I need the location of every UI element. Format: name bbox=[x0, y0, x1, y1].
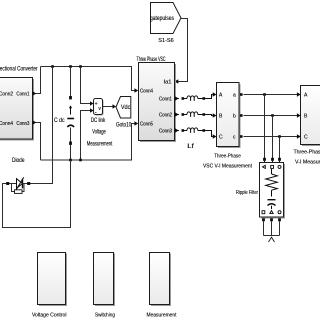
node J1 bbox=[51, 65, 54, 68]
neutral chevron bbox=[269, 237, 275, 242]
svg-text:Conn3: Conn3 bbox=[159, 128, 172, 134]
svg-text:Conn4: Conn4 bbox=[140, 88, 153, 94]
port label Conn4 bbox=[0, 121, 13, 127]
arrow into Vdc goto bbox=[113, 104, 117, 108]
inductor row C bbox=[175, 128, 217, 139]
svg-text:Conn2: Conn2 bbox=[0, 92, 13, 98]
label Three-Phase bbox=[214, 154, 241, 160]
svg-text:+: + bbox=[95, 102, 98, 108]
svg-text:a: a bbox=[233, 92, 236, 98]
svg-text:Conn1: Conn1 bbox=[159, 96, 172, 102]
capacitor C dc bbox=[67, 67, 74, 161]
svg-text:Voltage: Voltage bbox=[92, 130, 106, 136]
svg-text:Three-Phase: Three-Phase bbox=[294, 150, 320, 156]
port label Conn5 vsc bbox=[140, 122, 153, 128]
svg-text:gatepulses: gatepulses bbox=[150, 16, 174, 22]
svg-text:b: b bbox=[233, 114, 236, 120]
node J4 bbox=[69, 159, 72, 162]
subsystem Switching bbox=[94, 253, 116, 307]
wire phase b bbox=[244, 115, 298, 117]
wire Conn3 to bottom rail bbox=[36, 123, 41, 161]
node Jb bbox=[271, 114, 274, 117]
label VSC V-I Measurement bbox=[203, 164, 252, 170]
resistor R ripple bbox=[266, 169, 278, 197]
port Conn4 arrow (VSC input) bbox=[134, 88, 138, 92]
svg-text:Goto10: Goto10 bbox=[116, 122, 132, 128]
svg-text:C: C bbox=[304, 135, 308, 141]
arrow minus input bbox=[90, 108, 94, 112]
label DC link Voltage Measurement bbox=[87, 118, 113, 147]
wire drop a bbox=[264, 95, 266, 159]
measurement block U6 (Three-Phase V-I Measurement) bbox=[301, 86, 320, 147]
label C dc bbox=[54, 118, 65, 124]
wire plus input to voltage measurement bbox=[81, 67, 91, 104]
VSC block U3 bbox=[139, 63, 177, 143]
svg-text:Lf: Lf bbox=[187, 144, 194, 150]
wire Conn1 to top rail bbox=[36, 67, 41, 94]
wire top rail bbox=[41, 67, 136, 91]
arrow into B2 bbox=[297, 113, 301, 117]
node J5 bbox=[79, 159, 82, 162]
label Voltage Control bbox=[32, 313, 67, 319]
converter block U1 (Bidirectional Converter) bbox=[0, 78, 34, 141]
stub squares ripple filter top bbox=[263, 158, 281, 163]
arrow into C2 bbox=[297, 134, 301, 138]
label Lf bbox=[187, 144, 194, 150]
inductor row B bbox=[175, 112, 217, 118]
svg-text:Conn1: Conn1 bbox=[16, 92, 29, 98]
label Goto10 bbox=[116, 122, 132, 128]
ripple filter top glyphs bbox=[263, 165, 282, 168]
svg-text:Conn4: Conn4 bbox=[0, 121, 13, 127]
wire gatepulses to Ia1 bbox=[178, 19, 188, 82]
goto tag Vdc bbox=[116, 97, 131, 119]
arrow into A2 bbox=[297, 92, 301, 96]
port label Conn3 vsc bbox=[159, 128, 172, 134]
svg-text:S1-S6: S1-S6 bbox=[158, 38, 174, 44]
label Three-Phase right bbox=[294, 150, 320, 156]
port c stub bbox=[240, 135, 243, 138]
port Conn5 arrow (VSC input) bbox=[134, 121, 138, 125]
node Ja bbox=[263, 93, 266, 96]
svg-text:Measurement: Measurement bbox=[147, 313, 177, 319]
label S1-S6 bbox=[158, 38, 174, 44]
ripple filter bottom glyphs bbox=[262, 211, 281, 214]
svg-text:Voltage Control: Voltage Control bbox=[32, 313, 67, 319]
svg-text:Three-Phase: Three-Phase bbox=[214, 154, 241, 160]
wire diode branch vertical bbox=[29, 67, 53, 184]
label Ripple Filter bbox=[236, 190, 258, 196]
port label Conn2 vsc bbox=[159, 112, 172, 118]
wire bottom rail bbox=[41, 124, 136, 161]
subsystem Measurement bbox=[150, 253, 172, 307]
from tag gatepulses bbox=[150, 3, 181, 34]
port label Conn1 bbox=[16, 92, 29, 98]
svg-text:V-I Measurement: V-I Measurement bbox=[295, 160, 320, 166]
label Measurement bbox=[147, 313, 177, 319]
wire drop c bbox=[279, 137, 281, 159]
voltage measurement block U2 bbox=[94, 99, 104, 116]
label Diode bbox=[12, 158, 25, 164]
wire vm output bbox=[103, 106, 114, 108]
svg-text:Conn2: Conn2 bbox=[159, 112, 172, 118]
ripple filter block U5 bbox=[260, 163, 286, 219]
wire drop b bbox=[272, 116, 274, 159]
label Switching bbox=[95, 313, 115, 319]
svg-text:Conn3: Conn3 bbox=[16, 121, 29, 127]
svg-text:VSC V-I Measurement: VSC V-I Measurement bbox=[203, 164, 252, 170]
label Bidirectional Converter bbox=[0, 67, 38, 73]
port Conn1 arrow bbox=[33, 91, 37, 95]
svg-text:Three Phase VSC: Three Phase VSC bbox=[137, 57, 166, 63]
port Conn3 arrow bbox=[33, 120, 37, 124]
node J2 bbox=[69, 65, 72, 68]
svg-text:Ia1: Ia1 bbox=[164, 79, 172, 85]
svg-text:Conn5: Conn5 bbox=[140, 122, 153, 128]
diode D1 bbox=[3, 177, 31, 193]
port label Conn2 bbox=[0, 92, 13, 98]
inductor row A bbox=[175, 92, 217, 101]
svg-text:-: - bbox=[95, 110, 97, 116]
node J3 bbox=[79, 65, 82, 68]
svg-text:Diode: Diode bbox=[12, 158, 25, 164]
neutral bar bbox=[264, 235, 280, 237]
wire phase a bbox=[244, 94, 298, 96]
svg-text:C dc: C dc bbox=[54, 118, 65, 124]
label V-I Measurement right bbox=[295, 160, 320, 166]
wire minus input from rail bbox=[81, 111, 91, 161]
ripple filter bottom stubs bbox=[262, 218, 281, 235]
svg-text:Ripple Filter: Ripple Filter bbox=[236, 190, 258, 196]
port b stub bbox=[240, 114, 243, 117]
port label Conn1 vsc bbox=[159, 96, 172, 102]
svg-text:Bidirectional Converter: Bidirectional Converter bbox=[0, 67, 38, 73]
arrow plus input bbox=[90, 101, 94, 105]
subsystem Voltage Control bbox=[38, 253, 68, 307]
port Ia1 arrow bbox=[175, 79, 179, 83]
wire phase c bbox=[244, 136, 298, 138]
port label Ia1 bbox=[164, 79, 172, 85]
svg-text:Switching: Switching bbox=[95, 313, 115, 319]
svg-text:DC link: DC link bbox=[91, 118, 106, 124]
measurement block U4 (Three-Phase VSC V-I Measurement) bbox=[217, 83, 241, 149]
svg-text:Measurement: Measurement bbox=[87, 141, 113, 147]
wire diode anode loop bbox=[3, 160, 71, 228]
svg-text:Vdc: Vdc bbox=[121, 105, 131, 111]
capacitor C ripple bbox=[268, 200, 276, 209]
port label Conn4 vsc bbox=[140, 88, 153, 94]
label Three Phase VSC bbox=[137, 57, 166, 63]
port label Conn3 bbox=[16, 121, 29, 127]
node Jc bbox=[278, 135, 281, 138]
svg-text:C: C bbox=[219, 135, 223, 141]
port a stub bbox=[240, 93, 243, 96]
